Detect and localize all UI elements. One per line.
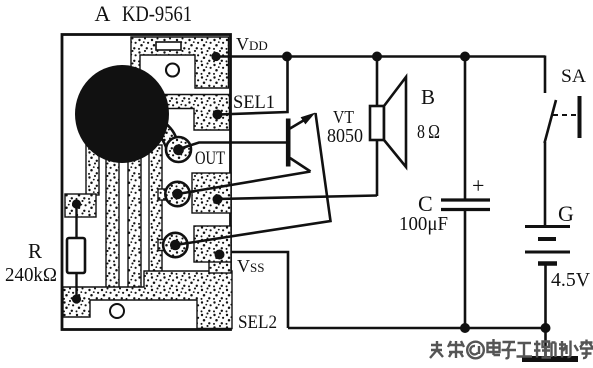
- wire VSS to bottom rail: [231, 252, 288, 328]
- svg-text:SEL2: SEL2: [238, 312, 277, 333]
- pad OUT teardrop: [146, 116, 177, 147]
- svg-text:SA: SA: [561, 66, 586, 87]
- switch SA dashed link: [553, 114, 576, 116]
- IC module A outline (KD-9561 COB board): [62, 35, 231, 330]
- svg-text:8 Ω: 8 Ω: [417, 121, 440, 143]
- svg-text:R: R: [28, 239, 42, 263]
- trace stripe C: [128, 150, 141, 288]
- pad dot teardrop2: [172, 189, 183, 200]
- svg-text:240kΩ: 240kΩ: [5, 264, 57, 286]
- trace SEL1 (stippled band): [150, 95, 230, 131]
- transistor Q1 base bar: [286, 119, 291, 167]
- battery G plate 2 (short): [538, 237, 556, 241]
- node battery bottom junction: [541, 323, 551, 333]
- node speaker junction: [372, 52, 382, 62]
- speaker B cone: [384, 77, 406, 167]
- via hole (bottom): [110, 304, 124, 318]
- speaker B frame: [370, 106, 384, 140]
- capacitor C bottom plate: [441, 208, 490, 211]
- svg-text:VT: VT: [333, 107, 354, 127]
- via hole (top window): [166, 64, 179, 77]
- svg-text:B: B: [421, 85, 435, 109]
- wire speaker top: [376, 57, 379, 107]
- wire battery bottom: [544, 263, 547, 328]
- wire collector run: [178, 172, 311, 195]
- pad dot resistor top: [72, 199, 81, 208]
- trace VDD (stippled top band with right column): [131, 37, 229, 88]
- wire capacitor top: [464, 57, 467, 200]
- pad2 teardrop and neck: [158, 189, 170, 200]
- board marking rectangle: [156, 42, 181, 50]
- svg-text:8050: 8050: [327, 125, 363, 147]
- pad dot teardrop3: [170, 240, 181, 251]
- wire VDD rail (top): [216, 55, 545, 58]
- battery G plate 4 (short): [538, 261, 557, 266]
- battery G plate 1 (long): [525, 225, 570, 228]
- resistor R top pad: [65, 194, 96, 217]
- pad dot rect2: [213, 194, 223, 204]
- pad dot resistor bottom: [72, 294, 81, 303]
- pad dot VDD: [211, 52, 220, 61]
- svg-text:OUT: OUT: [195, 148, 225, 169]
- pad dot OUT: [173, 144, 184, 155]
- wire switch top: [544, 56, 547, 94]
- wire bottom rail: [288, 327, 546, 330]
- transistor collector lead: [290, 158, 311, 172]
- trace VSS column: [209, 260, 231, 273]
- wire capacitor bottom: [464, 210, 467, 328]
- svg-text:KD-9561: KD-9561: [122, 1, 192, 26]
- trace stripe to resistor: [86, 145, 99, 195]
- wire OUT to base: [179, 143, 287, 150]
- watermark: toutiao @ dianzi gongchengshi xiaoli (simulated CJK strokes): [430, 339, 593, 358]
- wire speaker bottom: [376, 140, 379, 196]
- wire emitter run: [175, 113, 330, 245]
- COB chip blob: [75, 65, 169, 163]
- resistor R lead bottom: [75, 273, 77, 299]
- resistor R lead top: [75, 204, 77, 238]
- trace bottom bus (stippled, SEL2 / VSS return): [63, 271, 232, 329]
- pad dot SEL1: [213, 110, 223, 120]
- svg-text:SEL1: SEL1: [233, 92, 275, 113]
- svg-text:A: A: [95, 1, 111, 26]
- pad2 rectangle: [192, 173, 231, 213]
- svg-text:+: +: [472, 173, 484, 198]
- node SEL1/VDD junction: [282, 52, 292, 62]
- switch SA actuator bar: [578, 96, 582, 138]
- pad3 teardrop and neck: [158, 240, 170, 251]
- node capacitor bottom junction: [460, 323, 470, 333]
- node capacitor top junction: [460, 52, 470, 62]
- svg-text:4.5V: 4.5V: [551, 269, 591, 291]
- wire ground stub: [544, 328, 547, 357]
- transistor emitter lead with arrow: [290, 119, 306, 129]
- pad dot rect3 (VSS): [215, 250, 225, 260]
- capacitor C top plate: [441, 198, 490, 201]
- battery G plate 3 (long): [525, 251, 570, 254]
- switch SA blade: [545, 100, 557, 143]
- wire switch to battery: [544, 142, 547, 226]
- trace stripe D: [149, 145, 162, 288]
- svg-text:G: G: [558, 201, 574, 226]
- pad3 rectangle (VSS): [194, 226, 231, 262]
- trace stripe B: [106, 150, 119, 288]
- wire SEL1 to VDD rail: [218, 57, 288, 115]
- wire speaker to pad2: [217, 196, 377, 200]
- ground bar: [522, 356, 578, 362]
- svg-text:100μF: 100μF: [399, 213, 448, 235]
- resistor R body: [67, 238, 85, 273]
